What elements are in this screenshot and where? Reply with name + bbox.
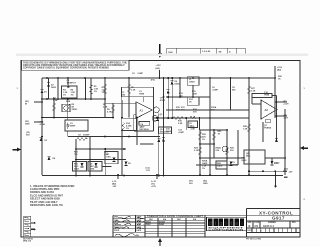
terminal stub D1 <box>34 121 42 123</box>
potentiometer R6 <box>64 104 70 110</box>
diode D17 <box>113 158 116 162</box>
svg-text:1-0-2-69: 1-0-2-69 <box>202 51 211 53</box>
terminal stub E1 <box>34 101 42 103</box>
svg-text:A2: A2 <box>265 108 269 112</box>
junction dots top bus <box>46 77 276 79</box>
diode D16 <box>156 117 159 121</box>
svg-text:47MF: 47MF <box>160 99 166 102</box>
svg-text:Q3: Q3 <box>160 114 164 116</box>
op-amp A2 feedback wires <box>252 94 287 142</box>
diode D6 <box>40 137 43 141</box>
svg-text:G917: G917 <box>272 216 285 221</box>
svg-text:IN: IN <box>25 103 28 105</box>
svg-text:(V2): (V2) <box>284 168 288 170</box>
vertical wire x186 <box>185 118 187 130</box>
component box Q4 <box>139 122 150 126</box>
svg-text:A: A <box>229 51 231 54</box>
wire y158 right <box>200 157 244 159</box>
vertical wire x68 <box>67 78 69 85</box>
svg-text:DEC2894: DEC2894 <box>160 130 170 133</box>
svg-text:2894: 2894 <box>90 168 95 171</box>
transistor Q4b <box>152 116 158 122</box>
vertical wire x113 <box>112 103 114 118</box>
svg-text:(F2): (F2) <box>151 79 155 81</box>
vertical wire x227 <box>226 130 228 175</box>
terminal stub x275.4 <box>274 171 276 186</box>
svg-text:DEC2894: DEC2894 <box>140 128 150 131</box>
svg-text:1.5K: 1.5K <box>131 90 136 92</box>
transistor Q3 <box>153 107 159 113</box>
diode D1 <box>41 89 44 93</box>
svg-text:1K: 1K <box>218 133 221 135</box>
terminal stub x157 <box>156 175 158 179</box>
bottom small boxes row <box>247 232 301 234</box>
svg-text:-15V: -15V <box>288 171 293 173</box>
vertical wire x153 <box>153 111 155 131</box>
component box R13 <box>187 97 199 105</box>
vertical wire x92.5 <box>90 78 92 99</box>
resistor R24 vertical zigzag <box>199 147 201 155</box>
wire bottom bus <box>42 175 283 177</box>
resistor R18 horizontal zigzag <box>190 116 197 118</box>
svg-text:2.2K: 2.2K <box>53 100 58 102</box>
svg-text:G917-0-1: G917-0-1 <box>263 224 275 228</box>
resistor R23 vertical zigzag <box>213 132 215 140</box>
svg-text:2894: 2894 <box>74 168 79 171</box>
svg-text:TRIM: TRIM <box>139 93 144 95</box>
svg-text:1K: 1K <box>189 102 192 104</box>
vertical wire box to bus <box>67 131 69 137</box>
svg-text:D662: D662 <box>275 163 281 165</box>
svg-text:+15V: +15V <box>151 186 157 188</box>
svg-text:IN3606: IN3606 <box>159 222 165 224</box>
svg-text:REV.: REV. <box>292 222 297 224</box>
proprietary note box <box>22 60 130 70</box>
svg-text:CORPORATION: CORPORATION <box>208 229 244 232</box>
title block outline <box>113 214 300 216</box>
component box L1 <box>187 77 199 85</box>
svg-text:GND: GND <box>203 183 208 185</box>
svg-text:(A2): (A2) <box>156 67 161 70</box>
vertical wire x172 <box>171 78 173 118</box>
svg-text:-OUT: -OUT <box>283 118 289 120</box>
wire signal y118 <box>154 117 250 119</box>
svg-text:SIG: SIG <box>26 134 30 136</box>
svg-text:1: 1 <box>304 88 306 90</box>
vertical wire x214 <box>213 130 215 158</box>
wire y158 to rail <box>265 157 285 159</box>
vertical wire x48.5 <box>48 78 50 99</box>
svg-text:2: 2 <box>304 199 306 201</box>
zone mark right lower <box>304 199 306 201</box>
junction dots mid bus <box>41 129 286 160</box>
vertical wire x193 <box>192 85 194 97</box>
svg-text:RESISTORS ARE 1/4W, 5%: RESISTORS ARE 1/4W, 5% <box>30 203 64 207</box>
potentiometer R6 box <box>62 104 70 112</box>
signature block text <box>114 216 142 233</box>
+15V label top middle <box>156 65 162 70</box>
svg-text:D662: D662 <box>242 160 248 162</box>
svg-text:51K: 51K <box>216 150 220 152</box>
svg-text:SIZE: SIZE <box>248 222 253 224</box>
svg-text:+OUT: +OUT <box>283 104 289 106</box>
wire y149 <box>76 148 126 150</box>
resistor R27 vertical zigzag <box>248 86 250 94</box>
svg-text:2.4K: 2.4K <box>191 127 196 130</box>
vertical wire +15 stub <box>159 70 161 78</box>
svg-text:TRANSISTOR & DIODE CONVERSION: TRANSISTOR & DIODE CONVERSION CHART <box>147 215 204 218</box>
svg-text:(A2): (A2) <box>277 69 282 72</box>
svg-text:20K: 20K <box>211 109 215 111</box>
resistor R8 vertical zigzag <box>128 84 130 94</box>
component box R14 <box>121 118 136 130</box>
junction dots signal wires <box>41 115 277 123</box>
svg-text:180: 180 <box>122 94 126 96</box>
svg-text:GAIN: GAIN <box>217 165 223 168</box>
vertical wire x105 <box>104 78 106 118</box>
svg-text:D662: D662 <box>51 87 57 89</box>
vertical wire x230.5 <box>230 78 232 110</box>
dist column bottom left <box>24 216 31 237</box>
svg-text:DEC: DEC <box>149 219 154 221</box>
wire top bus +15V <box>42 77 275 79</box>
resistor R9 vertical zigzag <box>112 105 114 113</box>
component box B1 <box>62 86 78 98</box>
vertical wire x275 <box>274 66 276 118</box>
svg-text:NUMBER: NUMBER <box>268 222 277 224</box>
bottom centering arrow <box>158 238 162 246</box>
vertical wire x58 <box>57 78 59 99</box>
vertical wire pot branch <box>67 98 69 120</box>
left centering arrow <box>13 148 22 152</box>
resistor R2 vertical zigzag <box>53 103 55 111</box>
component box C11 <box>265 120 270 123</box>
svg-text:PRT G917-0-1 RSD: PRT G917-0-1 RSD <box>246 239 262 241</box>
wire y131 <box>134 130 154 132</box>
vertical wire x210 <box>209 78 211 175</box>
svg-text:DATE: DATE <box>137 219 143 222</box>
svg-text:SIG: SIG <box>189 183 193 185</box>
svg-text:PROD: PROD <box>114 230 120 232</box>
handwritten signatures <box>115 216 144 236</box>
svg-text:1%: 1% <box>126 128 129 130</box>
svg-text:t: t <box>231 221 233 227</box>
op-amp A1 feedback box <box>105 87 154 131</box>
resistor R5 vertical zigzag <box>90 85 92 95</box>
vertical wire x163.5 <box>163 78 165 176</box>
svg-text:1: 1 <box>17 88 19 90</box>
component box C7 <box>105 152 118 164</box>
dist arrows <box>31 222 36 231</box>
resistor R7 vertical zigzag <box>104 84 106 94</box>
svg-text:20K: 20K <box>176 110 180 112</box>
svg-text:51K: 51K <box>230 150 234 152</box>
component box C5 <box>188 121 198 128</box>
vertical wire x90 <box>89 137 91 176</box>
svg-text:DEC: DEC <box>177 219 182 221</box>
svg-text:.01MF: .01MF <box>178 132 185 134</box>
terminal dot bottom right <box>274 185 276 187</box>
vertical wire x124 upper <box>121 100 123 118</box>
svg-text:1%: 1% <box>94 91 97 93</box>
diode D14 <box>275 138 278 142</box>
svg-text:D664: D664 <box>175 82 181 85</box>
svg-text:TRIM: TRIM <box>264 95 269 97</box>
wire y165 right <box>196 164 238 166</box>
vertical wire x129 <box>128 78 130 118</box>
svg-text:DIST.: DIST. <box>248 230 253 232</box>
svg-text:2.4K: 2.4K <box>103 105 108 108</box>
svg-text:A: A <box>260 230 262 233</box>
zone mark right upper <box>304 88 306 90</box>
wire y144 <box>140 143 154 145</box>
wire signal y117.5 left <box>42 117 113 119</box>
svg-text:.01MF: .01MF <box>212 90 219 92</box>
svg-text:330MF: 330MF <box>83 135 90 137</box>
terminal arrow right V2 <box>283 171 288 179</box>
diode D13 lead <box>271 158 273 161</box>
svg-text:d: d <box>209 221 212 227</box>
svg-text:1%: 1% <box>202 139 205 141</box>
wire y130 right <box>200 129 227 131</box>
vertical wire x249 <box>248 78 250 175</box>
svg-text:TRANS: TRANS <box>264 127 272 130</box>
capacitor C1 symbol <box>67 85 70 89</box>
diode D3 <box>171 80 174 84</box>
vertical wire x199.5 upper <box>199 118 201 130</box>
svg-text:100K: 100K <box>192 94 197 96</box>
wire y171.3 right <box>249 170 283 172</box>
vertical wire x76 <box>75 139 77 175</box>
notes text block <box>30 184 75 207</box>
svg-text:DATE: DATE <box>137 226 143 229</box>
resistor R25 vertical zigzag <box>226 147 228 155</box>
terminal stub x118 <box>117 175 119 179</box>
diode D12 <box>230 162 233 166</box>
svg-text:D4: D4 <box>53 157 57 160</box>
svg-text:CS: CS <box>255 224 259 228</box>
wire y166.5 <box>102 166 112 168</box>
footnote right <box>246 239 262 241</box>
title text <box>259 211 293 221</box>
resistor R16 horizontal zigzag <box>173 117 184 119</box>
diode D8 <box>95 163 98 167</box>
conversion chart grid <box>145 217 205 219</box>
svg-text:-15V: -15V <box>112 186 117 188</box>
svg-text:GND: GND <box>25 123 30 125</box>
signature rows <box>113 218 145 220</box>
resistor R28 vertical zigzag <box>248 124 250 132</box>
svg-text:D3: D3 <box>45 140 49 142</box>
svg-text:D662: D662 <box>146 224 151 226</box>
svg-text:680: 680 <box>232 90 236 92</box>
wire second bus left <box>42 98 105 100</box>
vertical wire x238 <box>237 130 239 165</box>
svg-text:D9: D9 <box>128 163 132 165</box>
svg-text:68MF: 68MF <box>70 126 76 128</box>
component value labels <box>25 73 293 188</box>
vertical wire x136.9 <box>136 118 138 146</box>
svg-text:5.1K: 5.1K <box>194 150 199 152</box>
wire y110 mid <box>166 109 249 111</box>
svg-text:DEC: DEC <box>107 157 112 159</box>
svg-text:39MF: 39MF <box>232 165 238 167</box>
diode D10 <box>162 137 165 141</box>
DEC form footnote left <box>23 239 34 243</box>
component box R26 gain pot <box>216 161 227 169</box>
capacitor C2 symbol <box>66 123 69 129</box>
svg-text:A1: A1 <box>140 109 144 113</box>
zone mark left upper <box>17 88 19 90</box>
svg-text:R4A: R4A <box>66 100 71 103</box>
svg-text:ZERO: ZERO <box>72 109 78 111</box>
op-amp A2 <box>261 100 277 119</box>
svg-text:51K: 51K <box>193 112 197 114</box>
svg-text:1.5K: 1.5K <box>243 129 248 131</box>
svg-text:g: g <box>219 221 222 227</box>
conversion chart text <box>146 215 204 226</box>
revision table above frame <box>167 48 246 54</box>
DEC logo <box>207 217 247 231</box>
wire mid bus <box>68 136 160 138</box>
svg-text:C9: C9 <box>132 73 136 75</box>
component box Q8 <box>244 150 265 164</box>
svg-text:-15V: -15V <box>146 170 151 172</box>
diode D2 <box>47 82 50 86</box>
vertical wire x54 <box>53 99 55 118</box>
diode D5 <box>167 89 170 93</box>
vertical wire x105b <box>104 149 106 175</box>
wire left rail <box>41 78 43 175</box>
diode D13 <box>271 161 274 165</box>
component box R21 <box>88 162 102 172</box>
svg-text:1%: 1% <box>63 95 66 97</box>
resistor R22 vertical zigzag <box>199 132 201 140</box>
diode D11 <box>157 138 160 142</box>
vertical wire x285 <box>284 109 286 175</box>
svg-text:10MH: 10MH <box>189 82 195 84</box>
vertical wire x200 <box>199 130 201 175</box>
right centering arrow <box>300 146 308 150</box>
vertical wire x158 <box>158 114 160 176</box>
svg-text:CODE: CODE <box>254 222 260 224</box>
top centering arrow <box>158 44 162 58</box>
component box R20 <box>73 162 87 172</box>
svg-text:4.7K: 4.7K <box>107 111 112 114</box>
svg-text:750: 750 <box>74 154 78 156</box>
diode D7 <box>81 163 84 167</box>
op-amp A1 <box>136 102 152 119</box>
svg-text:DRA 110: DRA 110 <box>23 240 31 243</box>
svg-text:B: B <box>249 224 251 228</box>
svg-text:1K: 1K <box>278 78 281 80</box>
title cell <box>247 208 301 210</box>
svg-text:4.99K: 4.99K <box>40 123 46 126</box>
vertical wire x263 <box>262 122 264 142</box>
+15V label top right <box>277 67 283 72</box>
svg-text:DATE: DATE <box>137 229 143 232</box>
svg-text:COPYRIGHT 1969 BY DIGITAL EQUI: COPYRIGHT 1969 BY DIGITAL EQUIPMENT CORP… <box>23 66 109 69</box>
wire second bus right <box>166 96 210 98</box>
vertical wire x85 <box>84 78 86 99</box>
scan shadow band <box>16 53 308 56</box>
svg-text:1%: 1% <box>71 95 74 97</box>
svg-text:+15V: +15V <box>156 65 162 67</box>
vertical wire x124 lower <box>121 131 123 176</box>
vertical wire x168.2 <box>167 78 169 118</box>
svg-text:D1: D1 <box>44 92 48 94</box>
transistor Q6 <box>222 146 228 152</box>
drawing frame border <box>21 60 300 237</box>
svg-text:a: a <box>235 221 238 227</box>
svg-text:1%: 1% <box>202 168 205 170</box>
resistor R19 horizontal zigzag <box>77 138 88 140</box>
wire y159.5 <box>76 159 126 161</box>
vertical wire x180 <box>179 78 181 97</box>
svg-text:1%: 1% <box>102 92 105 94</box>
resistor R14 vertical zigzag <box>122 123 124 131</box>
svg-text:IN645: IN645 <box>159 223 164 226</box>
junction dots second bus <box>41 96 277 103</box>
svg-text:DEC: DEC <box>246 156 251 158</box>
svg-text:TRIMPOT: TRIMPOT <box>67 83 77 85</box>
size code number row <box>248 222 297 224</box>
svg-text:51K: 51K <box>181 110 185 112</box>
component box C2 <box>65 120 88 131</box>
diode D9 <box>125 162 128 166</box>
diode D4 <box>48 156 51 160</box>
svg-text:.01MF: .01MF <box>137 73 144 75</box>
wire y144 right <box>200 143 214 145</box>
svg-text:2.4K: 2.4K <box>178 122 183 125</box>
component box Q5 <box>159 127 172 134</box>
junction dots bottom bus <box>75 170 276 176</box>
svg-text:1.5K: 1.5K <box>251 91 256 93</box>
